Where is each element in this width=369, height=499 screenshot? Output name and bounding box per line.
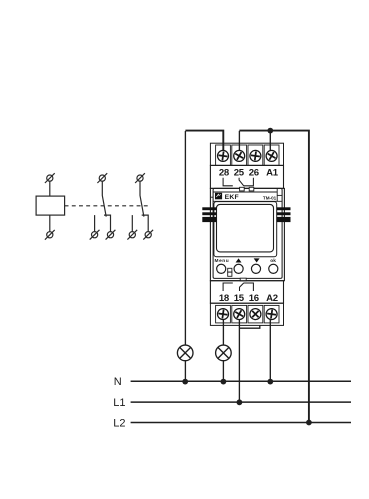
svg-text:N: N: [114, 376, 122, 388]
svg-text:A1: A1: [266, 168, 279, 179]
svg-text:25: 25: [234, 168, 245, 179]
svg-text:15: 15: [234, 293, 245, 304]
svg-text:L2: L2: [113, 417, 125, 429]
svg-text:L1: L1: [113, 397, 125, 409]
svg-text:28: 28: [219, 168, 230, 179]
svg-text:EKF: EKF: [225, 194, 239, 201]
svg-text:18: 18: [219, 293, 230, 304]
svg-text:26: 26: [249, 168, 259, 179]
svg-text:TM-01: TM-01: [263, 196, 277, 201]
svg-text:Menu: Menu: [215, 258, 230, 264]
svg-text:A2: A2: [266, 293, 278, 304]
svg-text:16: 16: [249, 293, 259, 304]
svg-text:ok: ok: [270, 258, 276, 264]
